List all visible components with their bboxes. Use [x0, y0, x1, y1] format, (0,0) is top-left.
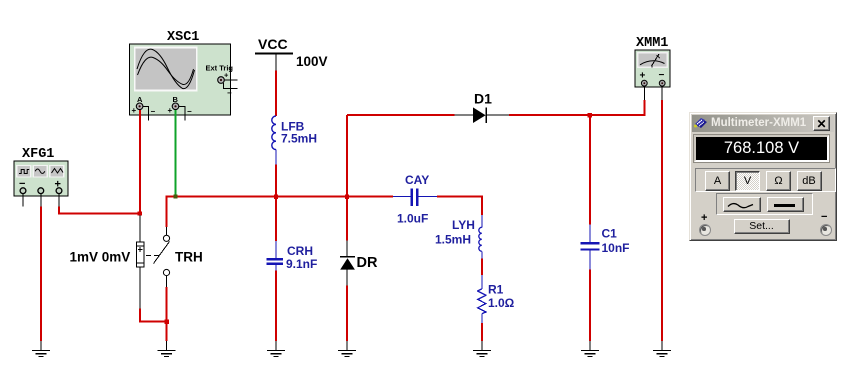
- minus terminal jack: [820, 224, 832, 236]
- XMM1 minus pin lead: [661, 86, 663, 100]
- oscilloscope XSC1 screen: [135, 47, 197, 90]
- svg-text:CAY: CAY: [405, 173, 429, 187]
- wire battery bottom to switch node: [140, 309, 167, 322]
- button V (pressed): [735, 171, 760, 191]
- svg-text:+: +: [168, 106, 173, 115]
- XMM1 plus pin lead: [643, 86, 645, 100]
- svg-text:XMM1: XMM1: [636, 36, 668, 51]
- capacitor CAY: [393, 188, 437, 206]
- XFG1 square-wave button: [17, 166, 31, 178]
- wire CRH to ground: [275, 271, 277, 342]
- multimeter window Multimeter-XMM1: [689, 112, 837, 241]
- ground under XFG1: [32, 341, 50, 357]
- wire CAY right to LYH corner: [437, 197, 482, 215]
- svg-text:9.1nF: 9.1nF: [286, 257, 317, 271]
- svg-text:100V: 100V: [296, 54, 328, 69]
- svg-text:C1: C1: [602, 227, 618, 241]
- svg-text:10nF: 10nF: [602, 241, 630, 255]
- wire scope B down (green): [175, 110, 177, 197]
- svg-text:D1: D1: [474, 91, 492, 107]
- function generator XFG1 body: [14, 161, 68, 196]
- svg-text:1.0uF: 1.0uF: [397, 212, 428, 226]
- wire VCC to LFB: [275, 71, 277, 117]
- mode group box: [695, 168, 836, 192]
- XFG1 triangle-wave button: [50, 166, 64, 178]
- svg-text:CRH: CRH: [287, 244, 313, 258]
- channel B terminal: [168, 95, 193, 121]
- wire LYH to R1: [481, 259, 483, 276]
- node junction battery/switch bottom: [165, 319, 169, 323]
- title text: [711, 117, 806, 129]
- button DC (line): [767, 197, 804, 212]
- svg-text:−: −: [187, 107, 192, 116]
- multimeter XMM1 body: [635, 50, 670, 87]
- Ext Trig terminal: [218, 71, 238, 98]
- display bezel: [694, 135, 829, 162]
- wire top horizontal to D1: [347, 114, 455, 116]
- diode D1: [473, 107, 486, 123]
- capacitor C1: [580, 225, 599, 270]
- XFG1 terminal +: [56, 188, 62, 194]
- button AC (sine): [723, 197, 761, 212]
- wire D1 to XMM1 corner: [509, 100, 644, 115]
- XFG1 terminal common: [38, 188, 44, 194]
- svg-text:−: −: [151, 107, 156, 116]
- svg-text:1mV 0mV: 1mV 0mV: [70, 250, 131, 265]
- VCC power symbol: [255, 36, 293, 71]
- diode D1 lead right: [486, 114, 509, 116]
- node junction battery top: [138, 211, 142, 215]
- svg-text:R1: R1: [488, 283, 504, 297]
- diode DR lead top: [346, 241, 348, 258]
- XMM1 display: [638, 53, 668, 68]
- minus terminal label: [821, 211, 827, 223]
- button ohm: [766, 171, 791, 191]
- ground under CRH: [267, 341, 285, 357]
- button A: [705, 171, 730, 191]
- node junction LFB/CRH on main wire: [274, 194, 278, 198]
- svg-text:XFG1: XFG1: [22, 147, 54, 162]
- wire XFG1 common to ground: [40, 207, 42, 342]
- plus terminal label: [701, 212, 707, 224]
- wire DR branch vertical: [346, 115, 348, 240]
- wire main horizontal node A: [167, 197, 393, 227]
- svg-text:1.0Ω: 1.0Ω: [488, 296, 515, 310]
- wire LFB to node: [275, 165, 277, 242]
- inductor LYH: [479, 215, 482, 259]
- switch TRH pin top: [166, 227, 168, 235]
- wire XMM1 minus down: [661, 100, 663, 341]
- XFG1 minus pin stub: [22, 194, 24, 207]
- display reading 768.108 V: [696, 137, 827, 160]
- svg-text:7.5mH: 7.5mH: [281, 132, 317, 146]
- wire scope A down: [139, 110, 141, 214]
- plus terminal jack: [699, 224, 711, 236]
- close button: [813, 116, 830, 131]
- battery V1 lead bottom: [139, 267, 141, 309]
- title bar: [692, 115, 834, 133]
- XFG1 sine-wave button: [33, 166, 47, 178]
- wire switch to ground: [166, 287, 168, 341]
- svg-text:Ext Trig: Ext Trig: [206, 64, 234, 73]
- capacitor CRH: [266, 241, 283, 271]
- XFG1 terminal -: [20, 188, 26, 194]
- svg-text:XSC1: XSC1: [167, 30, 199, 45]
- svg-text:−: −: [659, 70, 665, 81]
- diode D1 lead left: [455, 114, 474, 116]
- svg-text:+: +: [132, 106, 137, 115]
- battery V1 lead top: [139, 215, 141, 242]
- XFG1 common pin stub: [40, 194, 42, 207]
- waveform group box: [716, 193, 813, 215]
- channel A terminal: [132, 95, 156, 121]
- wire DR to ground: [346, 286, 348, 341]
- XMM1 terminal +: [641, 80, 647, 86]
- node junction C1/top wire: [588, 113, 592, 117]
- wire C1 to ground: [589, 269, 591, 341]
- svg-text:DR: DR: [357, 255, 378, 271]
- svg-text:TRH: TRH: [175, 250, 203, 265]
- node junction DR/main: [345, 194, 349, 198]
- button Set...: [734, 219, 790, 234]
- switch TRH pin bottom: [166, 276, 168, 287]
- switch TRH: [146, 235, 170, 275]
- window icon: [693, 116, 709, 130]
- wire R1 to ground: [481, 323, 483, 341]
- wire node to C1: [589, 115, 591, 224]
- XMM1 terminal -: [659, 80, 665, 86]
- ground under XMM1 minus: [653, 341, 671, 357]
- svg-text:−: −: [227, 89, 232, 98]
- svg-text:1.5mH: 1.5mH: [435, 233, 471, 247]
- ground under TRH: [158, 341, 176, 357]
- battery V1 (1mV source): [137, 242, 144, 267]
- oscilloscope XSC1 body: [130, 44, 231, 115]
- ground under C1: [581, 341, 599, 357]
- svg-text:+: +: [224, 71, 229, 80]
- diode DR: [340, 257, 355, 270]
- inductor LFB: [272, 116, 276, 165]
- diode DR lead bottom: [346, 270, 348, 286]
- svg-text:VCC: VCC: [258, 36, 288, 52]
- ground under DR: [338, 341, 356, 357]
- wire XFG1 plus to battery node: [59, 207, 140, 214]
- XFG1 plus pin stub: [58, 194, 60, 207]
- node junction green/main: [174, 195, 178, 199]
- svg-text:LYH: LYH: [452, 218, 475, 232]
- button dB: [797, 171, 822, 191]
- ground under R1: [473, 341, 491, 357]
- resistor R1: [478, 275, 486, 323]
